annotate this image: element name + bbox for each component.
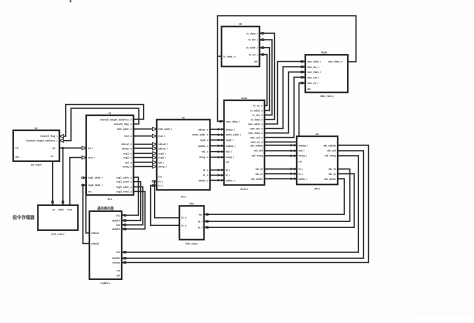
svg-text:re2: re2 (116, 223, 120, 227)
svg-text:blog.csdn.net/weixin_4433287: blog.csdn.net/weixin_4433287 (416, 311, 471, 316)
svg-text:hilo: hilo (189, 202, 194, 206)
svg-text:wreg_i: wreg_i (158, 165, 166, 169)
svg-text:io_we_i: io_we_i (248, 38, 258, 42)
svg-text:wb_whilo: wb_whilo (251, 177, 263, 181)
svg-text:mem_addr_o: mem_addr_o (192, 133, 209, 137)
svg-text:inst_o: inst_o (124, 134, 132, 138)
svg-text:rst: rst (158, 175, 161, 179)
svg-text:mem: mem (241, 97, 248, 100)
svg-text:reg1_read_o: reg1_read_o (116, 180, 132, 184)
svg-text:wb_wd: wb_wd (327, 149, 336, 153)
svg-text:rst: rst (299, 159, 302, 163)
svg-text:reg2_i: reg2_i (158, 156, 166, 160)
svg-text:re1: re1 (116, 213, 120, 217)
svg-text:link_addr_i: link_addr_i (158, 127, 172, 131)
svg-text:rst: rst (15, 146, 18, 150)
svg-text:IO: IO (239, 22, 242, 26)
svg-text:hilo_reg.v: hilo_reg.v (186, 241, 199, 245)
svg-text:ram_addr_i: ram_addr_i (307, 60, 321, 64)
svg-text:hi_o: hi_o (203, 168, 209, 172)
svg-text:ram_we_i: ram_we_i (307, 65, 319, 69)
svg-text:wdata_i: wdata_i (226, 144, 236, 148)
svg-text:reg2_o: reg2_o (200, 138, 209, 142)
svg-text:ram_data_i: ram_data_i (226, 119, 240, 123)
svg-text:whilo_o: whilo_o (199, 178, 209, 182)
svg-text:branch_target_address_o: branch_target_address_o (100, 117, 132, 121)
svg-text:aluop_i: aluop_i (158, 146, 167, 150)
svg-text:wb_wreg: wb_wreg (325, 154, 337, 158)
svg-text:lo_o: lo_o (203, 173, 209, 177)
svg-text:hi_i: hi_i (198, 219, 203, 223)
svg-text:clk: clk (307, 87, 311, 91)
svg-text:branch_flag_o: branch_flag_o (114, 122, 132, 126)
svg-text:wb_wd: wb_wd (254, 149, 263, 153)
svg-text:hi_i: hi_i (299, 167, 304, 171)
svg-text:wd_i: wd_i (158, 160, 164, 164)
svg-text:reg1_o: reg1_o (123, 151, 132, 155)
svg-text:reg2_o: reg2_o (123, 156, 132, 160)
svg-text:we: we (199, 213, 203, 216)
svg-text:hi_o: hi_o (181, 216, 187, 220)
svg-text:branch_target_address_i: branch_target_address_i (27, 139, 58, 143)
svg-text:waddr: waddr (112, 256, 120, 260)
svg-text:wdata: wdata (113, 261, 121, 265)
svg-text:reg1_data_i: reg1_data_i (88, 176, 103, 180)
svg-text:reg2_addr_o: reg2_addr_o (116, 185, 132, 189)
svg-text:ram_sel_i: ram_sel_i (307, 75, 319, 79)
svg-text:aluop_o: aluop_o (198, 127, 208, 131)
svg-text:wb_lo: wb_lo (255, 172, 263, 176)
svg-text:io_addr_o: io_addr_o (250, 109, 263, 113)
svg-text:whilo_i: whilo_i (299, 177, 308, 181)
svg-text:wreg_i: wreg_i (226, 155, 234, 159)
svg-text:ram_we_o: ram_we_o (250, 127, 263, 131)
svg-text:hi_i: hi_i (226, 168, 231, 172)
svg-text:rst: rst (117, 268, 120, 272)
svg-text:rst: rst (226, 160, 229, 164)
svg-text:regfile.v: regfile.v (101, 281, 112, 285)
svg-text:clk: clk (116, 274, 120, 278)
svg-text:ram_data_o: ram_data_o (248, 131, 263, 135)
svg-text:reg1_addr_o: reg1_addr_o (116, 175, 132, 179)
svg-text:id.v: id.v (108, 197, 113, 201)
svg-text:data_ram.v: data_ram.v (320, 94, 334, 98)
svg-text:lo_o: lo_o (181, 223, 187, 227)
svg-text:wd_i: wd_i (226, 150, 232, 154)
svg-text:alusel_o: alusel_o (121, 142, 132, 146)
svg-text:rst: rst (88, 190, 91, 194)
svg-text:we: we (116, 251, 120, 254)
svg-text:wb_wreg: wb_wreg (252, 154, 264, 158)
svg-text:ram_data_o: ram_data_o (328, 60, 343, 64)
svg-text:lo_i: lo_i (299, 172, 304, 176)
svg-text:ram_data_i: ram_data_i (307, 70, 321, 74)
svg-text:rdata1: rdata1 (91, 231, 99, 235)
svg-text:mem_addr_i: mem_addr_i (226, 133, 242, 137)
svg-text:wd_o: wd_o (202, 150, 209, 154)
svg-text:pc_i: pc_i (88, 146, 93, 150)
svg-text:whilo_i: whilo_i (226, 178, 235, 182)
svg-text:io_addr_i: io_addr_i (246, 46, 258, 50)
svg-text:wd_i: wd_i (299, 149, 305, 153)
svg-text:指令存储器: 指令存储器 (13, 214, 36, 221)
svg-text:wb_hi: wb_hi (255, 167, 263, 171)
svg-text:mem.v: mem.v (240, 188, 249, 191)
svg-text:wb.v: wb.v (314, 186, 320, 190)
svg-text:reg2_i: reg2_i (226, 138, 234, 142)
svg-text:reg1_i: reg1_i (158, 151, 166, 155)
svg-text:lo_i: lo_i (226, 173, 231, 177)
svg-text:io_data_i: io_data_i (246, 31, 258, 35)
svg-text:io_data_o: io_data_o (223, 54, 236, 58)
svg-text:alusel_i: alusel_i (158, 142, 168, 146)
svg-text:pc_reg.v: pc_reg.v (31, 163, 42, 167)
svg-text:aluop_o: aluop_o (122, 146, 132, 150)
svg-text:wd_o: wd_o (125, 160, 132, 164)
svg-text:inst_i: inst_i (158, 134, 165, 138)
svg-text:wb_wdata: wb_wdata (250, 143, 263, 147)
svg-text:lo_i: lo_i (158, 184, 163, 188)
svg-text:reg2_data_i: reg2_data_i (88, 183, 103, 187)
svg-text:inst_rom.v: inst_rom.v (51, 232, 65, 236)
svg-text:wdata_i: wdata_i (299, 143, 309, 147)
svg-text:ram_addr_o: ram_addr_o (248, 122, 263, 126)
svg-text:io_we_o: io_we_o (253, 113, 264, 117)
svg-text:id: id (109, 111, 112, 115)
svg-text:io_ce_i: io_ce_i (249, 53, 258, 57)
svg-text:raddr2: raddr2 (112, 227, 121, 231)
svg-text:inst_i: inst_i (88, 156, 95, 160)
svg-text:ram_ce_i: ram_ce_i (307, 81, 319, 85)
svg-text:wb: wb (315, 132, 319, 136)
svg-text:branch_flag_i: branch_flag_i (41, 134, 58, 138)
svg-text:rdata2: rdata2 (91, 242, 99, 246)
svg-text:RAM: RAM (321, 50, 327, 54)
svg-text:lo_i: lo_i (198, 225, 203, 229)
svg-text:link_addr_o: link_addr_o (117, 127, 132, 131)
svg-text:wb_lo: wb_lo (329, 172, 337, 176)
svg-text:reg2_read_o: reg2_read_o (116, 190, 132, 194)
svg-text:wreg_i: wreg_i (299, 154, 307, 158)
svg-text:wb_hi: wb_hi (329, 167, 337, 171)
svg-text:clk: clk (15, 155, 19, 159)
svg-text:ex.v: ex.v (181, 195, 187, 198)
svg-text:clk: clk (254, 60, 258, 64)
svg-text:addr: addr (58, 207, 64, 211)
svg-text:io_ce_o: io_ce_o (253, 104, 263, 108)
svg-text:wb_whilo: wb_whilo (324, 177, 336, 181)
svg-text:wreg_o: wreg_o (123, 165, 132, 169)
svg-text:inst: inst (67, 207, 72, 211)
svg-text:aluop_i: aluop_i (226, 127, 235, 131)
svg-text:wdata_o: wdata_o (198, 144, 209, 148)
svg-text:hi_i: hi_i (158, 179, 163, 183)
svg-text:wb_wdata: wb_wdata (323, 143, 336, 147)
svg-text:io_data_o: io_data_o (251, 118, 264, 122)
svg-text:通用寄存器: 通用寄存器 (97, 205, 114, 210)
svg-text:raddr1: raddr1 (112, 219, 121, 223)
svg-text:wreg_o: wreg_o (199, 155, 208, 159)
svg-text:ram_sel_o: ram_sel_o (250, 136, 263, 140)
